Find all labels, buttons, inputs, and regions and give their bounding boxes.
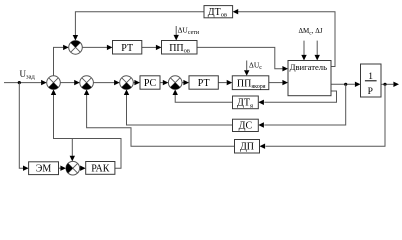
arrowhead into РАК	[80, 166, 86, 171]
arrowhead into ПП_якоря	[227, 80, 233, 85]
arrowhead into РТ field regulator	[107, 45, 113, 50]
wire РТ to ПП_якоря	[218, 82, 226, 84]
wire ΔJ disturbance drop	[316, 41, 318, 55]
block РТ armature current regulator	[189, 76, 218, 89]
arrowhead output terminal	[393, 82, 399, 87]
wire Двигатель speed output to integrator	[331, 83, 355, 85]
block ДТов sensor	[204, 6, 233, 19]
node position junction	[383, 83, 386, 86]
wire ПП_ов output to Двигатель field input	[197, 47, 282, 68]
wire Uзад input to summer S1	[4, 82, 42, 84]
block РТ field current regulator	[113, 41, 142, 55]
wire summer S3 to РС	[133, 82, 134, 84]
arrowhead into ДТов right	[233, 9, 239, 14]
arrowhead into summer S4	[163, 80, 169, 85]
wire ΔUсети disturbance drop	[175, 26, 177, 35]
arrowhead down into summer S6 top	[70, 156, 75, 162]
block ДТя armature current sensor	[233, 96, 259, 109]
block ДС speed sensor	[233, 119, 259, 132]
wire Двигатель EMF output up to ДТов	[238, 12, 335, 67]
block ЭМ	[29, 162, 59, 175]
arrowhead into Двигатель armature input	[282, 80, 288, 85]
wire summer S1 to summer S2	[60, 82, 74, 84]
arrowhead into РС	[134, 80, 140, 85]
svg-text:Двигатель: Двигатель	[290, 62, 327, 72]
svg-text:ДС: ДС	[239, 121, 253, 132]
summing junction S4	[168, 76, 182, 90]
wire summer S1 top up to field summer ST left	[54, 47, 64, 75]
arrowhead down into summer ST top	[73, 35, 78, 41]
arrowhead ΔUс into ПП_якоря top	[244, 70, 249, 76]
block РАК	[86, 162, 115, 175]
svg-text:ДП: ДП	[240, 142, 254, 153]
wire РТ to ПП_ов	[142, 46, 156, 48]
svg-text:ЭМ: ЭМ	[36, 164, 52, 175]
arrowhead into ДП right	[260, 144, 266, 149]
arrowhead ΔJ into Двигатель top	[315, 55, 320, 61]
wire branch down into summer S6 top	[71, 139, 73, 156]
block ПП_ов field converter	[162, 41, 198, 55]
wire ДТя output to summer S4 bottom	[175, 95, 232, 103]
wire ДП output to summer S2 bottom	[87, 95, 235, 147]
wire Двигатель current output to ДТя	[264, 91, 336, 102]
wire ДС output to summer S3 bottom	[127, 95, 233, 125]
arrowhead into summer ST left	[63, 45, 69, 50]
block РС speed regulator	[140, 76, 160, 89]
wire ΔMс disturbance drop	[303, 41, 305, 55]
arrowhead into summer S6 left	[60, 166, 66, 171]
arrowhead into summer S2	[74, 80, 80, 85]
wire ДТов output left and down to summer ST	[75, 12, 204, 36]
wire summer S2 to summer S3	[93, 82, 114, 84]
arrowhead into РТ current regulator	[183, 80, 189, 85]
arrowhead into summer S1	[41, 80, 47, 85]
summing junction S3	[120, 76, 134, 90]
arrowhead into ДТя right	[258, 100, 264, 105]
wire summer S4 to РТ current regulator	[182, 82, 184, 84]
wire ΔUс disturbance drop	[246, 61, 248, 71]
arrowhead up into summer S1 bottom	[51, 89, 56, 95]
wire summer ST to РТ field regulator	[82, 46, 107, 48]
svg-text:Р: Р	[368, 87, 373, 97]
arrowhead into ЭМ	[23, 166, 29, 171]
arrowhead into summer S3	[114, 80, 120, 85]
arrowhead ΔUсети into ПП_ов top	[174, 35, 179, 41]
summing junction S2	[80, 76, 94, 90]
svg-text:РТ: РТ	[121, 43, 133, 54]
summing junction ST field loop	[69, 41, 83, 55]
summing junction S1	[47, 76, 61, 90]
arrowhead up into summer S3 bottom	[124, 89, 129, 95]
block integrator 1 over p	[361, 64, 382, 97]
arrowhead into integrator 1/p	[355, 82, 361, 87]
svg-text:РС: РС	[144, 78, 157, 89]
wire РАК output up and left to summer S1 bottom	[54, 95, 122, 169]
node speed junction	[344, 83, 347, 86]
svg-text:РАК: РАК	[91, 164, 110, 175]
wire position junction down to ДП	[266, 84, 386, 146]
svg-text:РТ: РТ	[198, 78, 210, 89]
node junction on Uзад line	[18, 81, 21, 84]
arrowhead up into summer S2 bottom	[84, 89, 89, 95]
arrowhead into ПП_ов	[156, 45, 162, 50]
summing junction S6 bottom loop	[66, 161, 80, 175]
wire ПП_якоря output to Двигатель armature input	[269, 82, 283, 84]
block Двигатель motor	[288, 61, 331, 96]
block ПП_якоря armature converter	[232, 76, 268, 90]
arrowhead up into summer S4 bottom	[173, 89, 178, 95]
wire РС to summer S4	[160, 82, 163, 84]
wire summer S6 to РАК	[79, 167, 82, 169]
wire ЭМ to summer S6	[59, 167, 61, 169]
arrowhead into ДС right	[258, 122, 264, 127]
block ДП position sensor	[235, 140, 260, 154]
arrowhead ΔMс into Двигатель top	[301, 55, 306, 61]
wire integrator output	[381, 83, 393, 85]
arrowhead into Двигатель field input	[282, 66, 288, 71]
wire speed junction down to ДС	[264, 84, 345, 125]
wire junction down to ЭМ	[19, 83, 23, 169]
